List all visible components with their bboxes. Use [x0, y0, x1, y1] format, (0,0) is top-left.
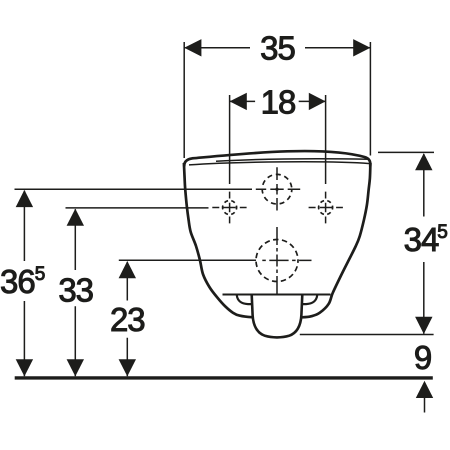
- dim 23 up arrow: [119, 261, 136, 278]
- right fixing hole: [319, 201, 333, 215]
- svg-text:34: 34: [404, 221, 439, 258]
- svg-text:5: 5: [437, 222, 448, 243]
- dim 365 vertical line: [23, 191, 25, 377]
- lid middle line: [216, 159, 369, 161]
- left hole crosshair horizontal: [212, 207, 246, 209]
- dim 345 up arrow: [415, 153, 432, 170]
- dim 345 top reference line: [378, 151, 434, 153]
- dim 33 up arrow: [67, 209, 84, 226]
- dim 33 vertical line: [74, 209, 76, 376]
- dim 18 left extension line: [229, 95, 231, 184]
- dim 345 vertical line: [423, 154, 425, 334]
- dim 18 line: [230, 100, 326, 102]
- svg-text:365: 365: [0, 263, 45, 300]
- dim 365 extension line (horizontal): [15, 188, 253, 190]
- dim 23 extension line (horizontal): [119, 259, 256, 261]
- dim 23 down arrow: [119, 359, 136, 376]
- dim 9 reference line: [300, 334, 434, 336]
- svg-text:23: 23: [110, 301, 145, 338]
- right hole crosshair vertical: [325, 192, 327, 224]
- dim 35 right extension line: [369, 42, 371, 156]
- bowl bottom line: [223, 293, 331, 295]
- left hole crosshair vertical: [229, 192, 231, 224]
- outlet crosshair vertical: [276, 227, 278, 294]
- dim 23 vertical line: [126, 262, 128, 376]
- inlet circle (dashed): [262, 174, 292, 204]
- dim 365 down arrow: [16, 359, 33, 376]
- lid top outline: [184, 151, 370, 166]
- inlet crosshair horizontal: [256, 188, 300, 190]
- dim 9 arrow tail: [424, 396, 426, 413]
- outlet crosshair horizontal dashes: [262, 259, 311, 261]
- toilet bowl body: [184, 163, 371, 317]
- dim 18 right extension line: [325, 95, 327, 184]
- dim 35 left arrow: [184, 39, 201, 56]
- outlet pipe U: [252, 295, 303, 338]
- lid bottom line: [189, 162, 370, 165]
- dim 35 left extension line: [183, 42, 185, 158]
- svg-text:9: 9: [414, 339, 431, 376]
- inlet center dot: [275, 188, 278, 191]
- floor baseline: [15, 376, 433, 379]
- svg-text:35: 35: [260, 30, 295, 67]
- svg-text:18: 18: [261, 84, 296, 121]
- left fixing hole: [223, 201, 237, 215]
- dim 345 down arrow: [415, 317, 432, 334]
- dim 33 down arrow: [67, 359, 84, 376]
- dim 33 extension line (horizontal): [66, 207, 209, 209]
- dim 18 left arrow: [230, 93, 247, 110]
- dim 365 up arrow: [16, 190, 33, 207]
- dim 35 line: [184, 47, 370, 49]
- outlet circle (dashed): [256, 240, 298, 282]
- left hook: [237, 295, 252, 304]
- inlet crosshair vertical: [276, 167, 278, 210]
- right hole crosshair horizontal: [309, 207, 343, 209]
- dim 9 up arrow below baseline: [416, 381, 433, 398]
- dim 35 right arrow: [353, 39, 370, 56]
- right hook: [303, 295, 318, 304]
- dim 18 right arrow: [309, 93, 326, 110]
- svg-text:33: 33: [58, 271, 93, 308]
